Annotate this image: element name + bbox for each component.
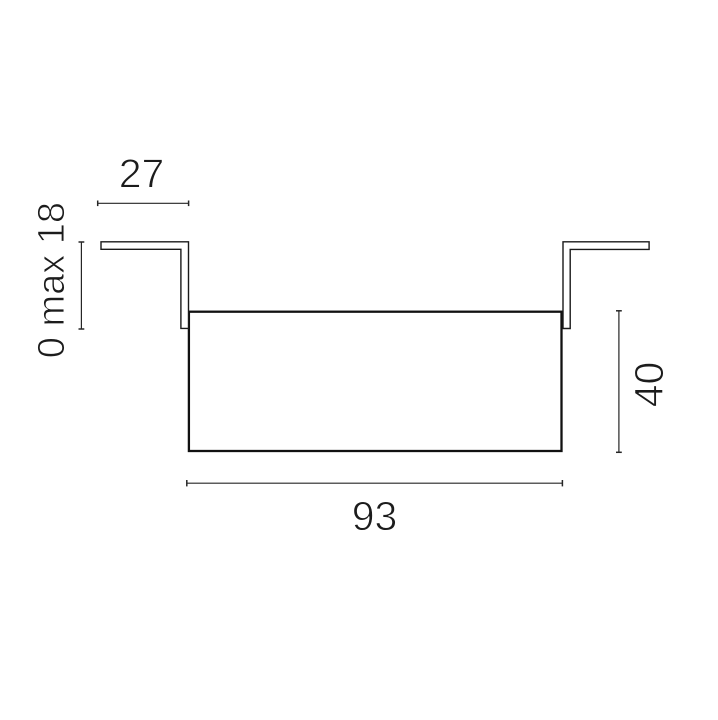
tick left of dimension 27	[97, 201, 99, 207]
right mounting flange	[563, 242, 649, 329]
tick right of dimension 93	[561, 480, 563, 486]
tick bottom of dimension 40	[616, 451, 622, 453]
tick left of dimension 93	[186, 480, 188, 486]
svg-text:93: 93	[352, 493, 398, 539]
svg-text:40: 40	[626, 362, 672, 408]
tick right of dimension 27	[188, 201, 190, 207]
tick bottom of dimension 0 max 18	[79, 328, 85, 330]
left mounting flange	[101, 242, 189, 329]
housing box	[189, 312, 562, 451]
tick top of dimension 40	[616, 310, 622, 312]
dimension line 0 max 18	[80, 242, 82, 329]
svg-text:0 max 18: 0 max 18	[31, 202, 73, 358]
dimension line 40	[618, 311, 620, 453]
svg-text:27: 27	[119, 150, 165, 196]
dimension line 93	[187, 482, 563, 484]
tick top of dimension 0 max 18	[79, 241, 85, 243]
dimension line 27	[98, 202, 189, 204]
